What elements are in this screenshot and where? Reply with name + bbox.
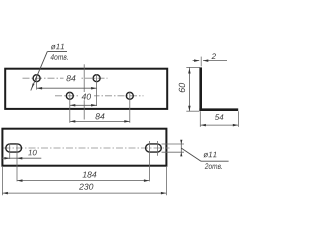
slot diameter dim top arrow bbox=[180, 140, 182, 144]
right slot bbox=[146, 144, 162, 152]
dimension 184 text bbox=[83, 172, 97, 178]
dimension 230 text bbox=[79, 184, 93, 190]
left slot arc tick 2 bbox=[16, 144, 18, 182]
dimension 184 left arrow bbox=[17, 179, 22, 182]
hole note shelf bbox=[47, 51, 67, 53]
slot label shelf bbox=[201, 160, 229, 162]
dimension 60 line bbox=[188, 68, 190, 112]
slot diameter dim top extension bbox=[162, 143, 185, 145]
dimension 84 top line bbox=[37, 87, 97, 89]
right slot arc tick 1 bbox=[148, 141, 150, 181]
dimension 54 right extension bbox=[237, 111, 239, 127]
dimension 84 middle line bbox=[70, 120, 130, 122]
dimension 230 left arrow bbox=[3, 192, 8, 195]
dimension 40 line bbox=[70, 104, 97, 106]
hole A vertical tick bbox=[36, 74, 38, 90]
dimension 2 extension above leg bbox=[200, 57, 202, 67]
hole note leader bbox=[31, 52, 48, 91]
slot label leader bbox=[181, 148, 201, 161]
dimension 84 top left arrow bbox=[37, 87, 42, 90]
dimension 84 middle right arrow bbox=[124, 120, 129, 123]
dimension 60 bottom extension bbox=[186, 110, 199, 112]
dimension 2 right arrow bbox=[203, 59, 208, 62]
dimension 84 middle left arrow bbox=[70, 120, 75, 123]
dimension 184 line bbox=[17, 180, 149, 182]
dimension 230 right arrow bbox=[161, 192, 166, 195]
hole B vertical extension bbox=[96, 74, 98, 106]
hole note diameter text bbox=[51, 44, 64, 50]
side view horizontal flange bbox=[199, 108, 238, 111]
dimension 54 right arrow bbox=[233, 124, 238, 127]
side view vertical leg bbox=[199, 67, 202, 111]
dimension 84 middle text bbox=[95, 113, 104, 119]
slot diameter dim bottom arrow bbox=[180, 152, 182, 156]
slot label count text bbox=[205, 163, 222, 169]
dimension 40 left arrow bbox=[70, 104, 75, 107]
centerline bottom hole row bbox=[55, 95, 144, 97]
dimension 230 left extension bbox=[1, 167, 3, 195]
dimension 54 corner extension bbox=[199, 111, 201, 127]
bottom view centerline bbox=[4, 147, 170, 149]
dimension 84 top text bbox=[64, 74, 80, 82]
dimension 10 text bbox=[28, 150, 37, 156]
hole A bbox=[33, 75, 40, 82]
dimension 10 left arrow bbox=[4, 157, 9, 160]
dimension 60 top extension bbox=[186, 66, 200, 68]
dimension 60 text bbox=[179, 83, 185, 92]
bottom view outline bbox=[2, 129, 166, 166]
hole note leader arrow bbox=[32, 83, 35, 88]
hole note count text bbox=[50, 54, 67, 60]
centerline top hole row bbox=[23, 77, 108, 79]
dimension 184 right arrow bbox=[144, 179, 149, 182]
dimension 84 top right arrow bbox=[91, 87, 96, 90]
left slot arc tick 1 bbox=[9, 144, 11, 159]
dimension 40 right arrow bbox=[91, 104, 96, 107]
dimension 60 top arrow bbox=[188, 68, 191, 73]
dimension 54 text bbox=[215, 114, 223, 120]
dimension 230 line bbox=[2, 192, 166, 194]
hole D vertical extension bbox=[129, 92, 131, 123]
hole D bbox=[126, 92, 133, 99]
dimension 40 text bbox=[79, 92, 94, 100]
front view outline bbox=[5, 69, 167, 109]
dimension 10 right arrow bbox=[17, 157, 22, 160]
dimension 2 left segment bbox=[193, 60, 200, 62]
dimension 54 left arrow bbox=[201, 124, 206, 127]
dimension 230 right extension bbox=[165, 167, 167, 195]
dimension 60 bottom arrow bbox=[188, 106, 191, 111]
right slot arc tick 2 bbox=[156, 141, 158, 156]
dimension 2 text bbox=[212, 53, 216, 59]
slot label diameter text bbox=[203, 152, 216, 158]
slot diameter dim bottom extension bbox=[162, 151, 185, 153]
dimension 2 right segment bbox=[203, 60, 227, 62]
slot diameter dim vertical line bbox=[180, 140, 182, 156]
hole B bbox=[93, 75, 100, 82]
dimension 2 left arrow bbox=[194, 59, 199, 62]
dimension 54 line bbox=[200, 124, 238, 126]
mid construction line bbox=[83, 64, 85, 119]
hole C vertical extension bbox=[69, 92, 71, 123]
hole C bbox=[66, 92, 73, 99]
left slot bbox=[6, 144, 22, 152]
dimension 10 line bbox=[2, 157, 41, 159]
